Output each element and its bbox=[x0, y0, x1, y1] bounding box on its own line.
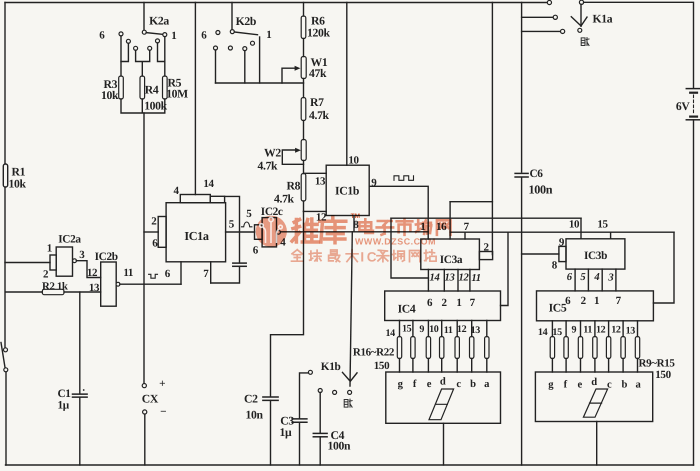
switch K2b contact 4 bbox=[228, 46, 232, 50]
switch K1a contact on rail end bbox=[547, 0, 551, 4]
resistor R4 bbox=[140, 76, 145, 99]
svg-text:12: 12 bbox=[87, 267, 98, 279]
gate IC2b body bbox=[101, 262, 117, 306]
svg-text:100n: 100n bbox=[328, 439, 351, 452]
wire IC3a pin 16 drop bbox=[449, 202, 451, 239]
svg-text:6: 6 bbox=[201, 30, 207, 42]
wire W2 wiper shorted to bottom terminal bbox=[282, 150, 303, 164]
svg-text:d: d bbox=[440, 377, 446, 388]
svg-text:4: 4 bbox=[593, 272, 599, 283]
capacitor C2 bbox=[263, 396, 278, 398]
gate IC2c left pin stub (pins 5,6) bbox=[255, 225, 263, 240]
IC5 output pin wires to R9-R15 bbox=[552, 321, 637, 337]
gate IC2c inversion bubble output bbox=[277, 230, 281, 234]
switch K2b contact 2 bbox=[251, 41, 255, 45]
svg-text:CX: CX bbox=[142, 393, 159, 406]
battery negative long plate bbox=[686, 119, 700, 121]
wire K2a contact 5 down bbox=[121, 43, 128, 61]
svg-text:f: f bbox=[564, 379, 568, 390]
op-amp IC1b body bbox=[326, 165, 369, 215]
svg-text:14: 14 bbox=[538, 327, 548, 338]
svg-text:5: 5 bbox=[229, 218, 235, 230]
IC4 output pin wires to R16-R22 bbox=[400, 321, 487, 337]
resistor R1 (inline on left rail) bbox=[3, 164, 7, 187]
seven-segment display DS1 body bbox=[386, 372, 501, 423]
resistor R8 bbox=[301, 174, 306, 202]
svg-text:6: 6 bbox=[427, 297, 433, 309]
wire IC1a pin 14 loop over to timing capacitor bbox=[225, 196, 240, 263]
display bus left leg down to IC3a pin 14 wire bbox=[391, 218, 428, 278]
op-amp IC1a body bbox=[166, 203, 226, 262]
svg-text:IC1a: IC1a bbox=[184, 229, 209, 243]
digit 8 figure of DS1 bbox=[429, 389, 454, 420]
wire W1 bottom to R7 (node with range bus) bbox=[303, 79, 305, 98]
capacitor C1 wire tap from R2 net bbox=[79, 292, 81, 394]
svg-text:4.7k: 4.7k bbox=[309, 109, 330, 122]
svg-text:4.7k: 4.7k bbox=[258, 159, 279, 172]
watermark slogan line (fake glyphs) bbox=[292, 249, 437, 264]
IC1a top pin stub (pin 4) bbox=[180, 195, 210, 203]
svg-text:11: 11 bbox=[471, 273, 480, 284]
svg-text:2: 2 bbox=[442, 297, 448, 309]
switch K2b pole contact bbox=[230, 30, 234, 34]
wire W2 bottom to R8 top, tap to IC1b pin 13 bbox=[303, 161, 305, 174]
arrowhead of W1 wiper bbox=[295, 66, 301, 71]
svg-text:12: 12 bbox=[596, 325, 606, 336]
switch K2b wiper to position 1 bbox=[234, 32, 257, 35]
svg-text:7: 7 bbox=[203, 268, 209, 280]
svg-text:IC2b: IC2b bbox=[95, 251, 118, 263]
wire K1b contact 1 to C3 bbox=[300, 373, 309, 419]
IC3b pin 10 drop bbox=[580, 218, 582, 239]
wire K2a contact 2 merge to R5 leg bbox=[158, 43, 165, 62]
svg-text:K2a: K2a bbox=[149, 14, 169, 27]
switch K2a contact 3 bbox=[148, 46, 152, 50]
wire IC2b pin 11 output to IC1a bottom pin 6 bbox=[120, 283, 181, 285]
svg-text:1: 1 bbox=[266, 29, 272, 41]
svg-text:IC2a: IC2a bbox=[58, 234, 81, 246]
svg-text:K2b: K2b bbox=[236, 15, 257, 28]
svg-text:6: 6 bbox=[99, 29, 105, 41]
capacitor (timing, unlabeled) bbox=[233, 262, 246, 264]
wire K2a contact 1 down to R5 bbox=[164, 37, 166, 76]
wire IC1b pin 13 bbox=[304, 172, 327, 174]
wire R8 net down to C2 bbox=[271, 211, 304, 396]
svg-text:3: 3 bbox=[79, 249, 85, 261]
svg-text:5: 5 bbox=[246, 208, 252, 220]
wire C4 to bottom rail bbox=[319, 437, 321, 465]
IC1a pin 7 stub bbox=[210, 262, 212, 283]
square wave symbol on clock wire bbox=[394, 176, 414, 181]
svg-text:b: b bbox=[470, 379, 476, 390]
svg-text:a: a bbox=[636, 379, 642, 390]
wire K2a contacts 4+3 merge to R4 bbox=[136, 50, 150, 76]
svg-text:g: g bbox=[398, 379, 404, 390]
wire K2a contact 6 down to R3 bbox=[120, 36, 122, 76]
battery 6V positive long plate bbox=[686, 88, 700, 90]
watermark overlay bbox=[256, 213, 451, 264]
svg-text:b: b bbox=[622, 379, 628, 390]
switch K2b contact 3 bbox=[243, 47, 247, 51]
wire strobe bus right end down to IC5 right side bbox=[653, 232, 674, 303]
resistor R5 bbox=[163, 76, 168, 99]
svg-text:W2: W2 bbox=[264, 146, 281, 159]
battery short plate upper bbox=[690, 92, 697, 94]
K1a contact wires from C6 column bbox=[522, 17, 561, 31]
svg-text:6: 6 bbox=[567, 272, 573, 283]
seven-segment display DS2 body bbox=[535, 372, 652, 422]
svg-text:15: 15 bbox=[597, 219, 608, 231]
switch K1b contact 3 bbox=[333, 390, 337, 394]
switch K2a pole wire from top rail bbox=[143, 3, 145, 31]
battery short plate lower bbox=[690, 115, 697, 117]
svg-text:150: 150 bbox=[655, 369, 671, 381]
resistor R7 bbox=[301, 98, 306, 121]
switch K2a contact 6 bbox=[119, 32, 123, 36]
svg-text:f: f bbox=[413, 379, 417, 390]
border frame left rail bbox=[4, 3, 6, 348]
driver IC4 body bbox=[385, 291, 501, 321]
wire R2 net from left rail bbox=[6, 291, 42, 293]
svg-text:2: 2 bbox=[484, 241, 490, 253]
svg-text:e: e bbox=[577, 379, 582, 390]
svg-text:13: 13 bbox=[315, 175, 326, 187]
switch K1b off-position contact bbox=[348, 390, 352, 394]
svg-text:TM: TM bbox=[351, 213, 360, 220]
svg-text:6: 6 bbox=[565, 295, 571, 307]
capacitor C1 polarity dot bbox=[83, 389, 85, 391]
arrowhead of W2 wiper bbox=[295, 148, 301, 153]
IC3a pin 2 stub box bbox=[479, 252, 492, 260]
svg-text:IC3a: IC3a bbox=[440, 254, 463, 266]
wire strobe bus tap down to IC4 right side bbox=[501, 232, 509, 305]
switch K1b contact 1 bbox=[308, 370, 312, 374]
switch K1a contact 3 bbox=[561, 29, 565, 33]
wire C6 bottom down to bottom rail (taps IC3b pins 9/8) bbox=[521, 177, 523, 465]
IC3b left pin stub (pins 9,8) bbox=[559, 246, 566, 261]
svg-text:4.7k: 4.7k bbox=[274, 193, 295, 206]
svg-text:6: 6 bbox=[253, 244, 259, 256]
svg-text:13: 13 bbox=[471, 325, 481, 336]
svg-text:1: 1 bbox=[171, 30, 177, 42]
switch K2b contact 5 bbox=[214, 46, 218, 50]
node CX plus terminal bbox=[142, 384, 146, 388]
wire C2 to bottom rail bbox=[270, 401, 272, 465]
svg-text:7: 7 bbox=[470, 297, 476, 309]
switch K2a contact 5 bbox=[126, 39, 130, 43]
svg-text:1: 1 bbox=[47, 243, 53, 255]
switch K2a contact 2 bbox=[156, 39, 160, 43]
svg-text:1: 1 bbox=[456, 297, 462, 309]
svg-text:IC3b: IC3b bbox=[584, 250, 607, 262]
watermark logo inner traces bbox=[260, 217, 283, 243]
svg-text:14: 14 bbox=[385, 328, 395, 339]
resistor R6 bbox=[301, 16, 306, 39]
battery negative lead / right rail to bottom bbox=[693, 120, 695, 465]
svg-text:11: 11 bbox=[583, 325, 592, 336]
switch K2a pole contact bbox=[142, 30, 146, 34]
IC3a pin 7 drop from strobe bus bbox=[464, 232, 466, 239]
svg-text:1μ: 1μ bbox=[280, 426, 292, 439]
power switch on left rail, blade bbox=[1, 343, 5, 368]
svg-text:13: 13 bbox=[445, 273, 456, 284]
power switch on left rail, upper contact bbox=[4, 348, 8, 352]
wire R8 bottom down with tap to IC1b pin 12 bbox=[303, 201, 305, 211]
wire R7 to W2 bbox=[303, 121, 305, 140]
gate IC2b inversion bubble output bbox=[116, 282, 120, 286]
wire IC1a pins 4/14 from top rail bbox=[194, 3, 196, 195]
svg-text:R16~R22: R16~R22 bbox=[353, 346, 395, 358]
wire left rail lower segment bbox=[5, 372, 7, 465]
top rail right section from K1a pole bbox=[584, 2, 694, 88]
svg-text:IC1b: IC1b bbox=[335, 185, 360, 198]
svg-text:6: 6 bbox=[152, 238, 158, 250]
switch K2a contact 4 bbox=[134, 46, 138, 50]
svg-text:C2: C2 bbox=[244, 393, 258, 406]
capacitor C4 bbox=[313, 432, 327, 434]
label duan (off) of K1a bbox=[581, 38, 589, 46]
counter IC3a body bbox=[421, 239, 480, 270]
svg-text:12: 12 bbox=[611, 325, 621, 336]
capacitor C3 bbox=[292, 418, 307, 420]
wire IC1b pin 10 from top rail bbox=[346, 3, 348, 166]
battery dashed middle (cells omitted) bbox=[693, 95, 695, 114]
wire timing-node column down to CX+ terminal bbox=[143, 113, 145, 383]
svg-text:K1a: K1a bbox=[593, 12, 613, 25]
svg-text:IC4: IC4 bbox=[398, 303, 416, 316]
svg-text:14: 14 bbox=[203, 178, 214, 190]
svg-text:c: c bbox=[456, 379, 461, 390]
svg-text:47k: 47k bbox=[309, 67, 327, 80]
wire timing capacitor to IC1a pin 7 bbox=[211, 267, 240, 284]
IC3a output pins 14/13/12/11 to IC4 bbox=[428, 270, 470, 292]
wire DS2 common to bottom rail bbox=[596, 422, 598, 466]
svg-text:100n: 100n bbox=[529, 183, 553, 197]
svg-text:10: 10 bbox=[569, 218, 580, 230]
switch K1a contact 2 bbox=[553, 15, 557, 19]
switch K1a off-position contact bbox=[578, 28, 582, 32]
svg-text:I: I bbox=[360, 249, 364, 264]
watermark logo circle bbox=[256, 216, 287, 247]
svg-text:6V: 6V bbox=[676, 100, 690, 113]
op-amp gate IC2a input stub (pins 1,2) bbox=[50, 255, 56, 270]
wire latch line from top rail down (to IC3a pins 16/2) bbox=[491, 3, 493, 255]
label duan (off) of K1b bbox=[344, 399, 352, 407]
resistor network R9~R15 bbox=[550, 337, 554, 359]
wire IC2c pin 4 output bus to clock column (gating bus) bbox=[280, 231, 428, 233]
wire IC1b pin 12 bbox=[304, 210, 327, 212]
wire CX minus to bottom rail bbox=[144, 414, 146, 465]
svg-text:+: + bbox=[159, 378, 165, 390]
wire K2b contact 1 down to range bus bbox=[259, 37, 261, 83]
wire latch branch to IC3a pin 16 bbox=[450, 201, 492, 203]
wire K1b contact 2 to C4 bbox=[319, 393, 321, 434]
wire IC2a output to IC2b pin 12 bbox=[76, 261, 100, 278]
switch K1a wiper arrow bbox=[571, 17, 587, 26]
switch K2a contact 1 bbox=[163, 33, 167, 37]
svg-text:K1b: K1b bbox=[321, 361, 341, 373]
wire C6 column from top rail bbox=[521, 3, 523, 173]
digit 8 figure of DS2 bbox=[583, 389, 607, 417]
svg-text:R9~R15: R9~R15 bbox=[638, 358, 675, 370]
switch K2b contact 6 bbox=[216, 31, 220, 35]
svg-text:14: 14 bbox=[430, 273, 440, 284]
node CX minus terminal bbox=[143, 410, 147, 414]
svg-text:5: 5 bbox=[580, 272, 586, 283]
svg-text:2: 2 bbox=[151, 215, 157, 227]
svg-text:10M: 10M bbox=[166, 88, 188, 101]
svg-text:9: 9 bbox=[559, 236, 565, 248]
potentiometer W2 bbox=[301, 140, 306, 161]
wire W1 wiper to range bus bbox=[282, 68, 296, 83]
svg-text:12: 12 bbox=[457, 324, 467, 335]
power switch on left rail, lower contact bbox=[4, 368, 8, 372]
svg-text:C: C bbox=[367, 249, 377, 264]
wire K2b contact 3 down to range bus bbox=[244, 51, 246, 83]
svg-text:g: g bbox=[548, 379, 554, 390]
switch K2b pole wire from top rail bbox=[231, 3, 233, 30]
strobe bus (IC3a pin7 / IC4 / IC3b pin15 / IC5) bbox=[450, 231, 674, 233]
wire C3 to bottom rail bbox=[299, 423, 301, 466]
IC3b pin 15 drop from strobe bus bbox=[610, 232, 612, 239]
svg-text:150: 150 bbox=[374, 360, 390, 372]
driver IC5 body bbox=[537, 291, 654, 321]
svg-text:120k: 120k bbox=[307, 27, 330, 40]
svg-text:11: 11 bbox=[123, 267, 133, 279]
switch K1a pole wire down bbox=[580, 4, 582, 26]
switch K1b pole wiper arrow bbox=[343, 372, 358, 381]
negative pulse symbol on IC2b output wire bbox=[149, 274, 158, 278]
gate IC2a body bbox=[56, 247, 72, 276]
wire R6 to W1 bbox=[303, 39, 305, 57]
svg-text:1: 1 bbox=[594, 295, 600, 307]
wire DS1 common to bottom rail bbox=[443, 423, 445, 465]
switch K1a pole contact bbox=[579, 0, 583, 4]
wire C1 to bottom rail bbox=[79, 397, 81, 465]
svg-text:7: 7 bbox=[464, 221, 470, 233]
svg-text:3: 3 bbox=[607, 273, 614, 284]
gate IC2c body bbox=[262, 218, 276, 247]
wire IC2a input from left rail bbox=[5, 262, 50, 264]
IC3b output pins 6/5/4/3 to IC5 bbox=[575, 269, 616, 291]
potentiometer W1 bbox=[301, 57, 306, 79]
wire timing node to IC1a pins 2/6 bbox=[144, 231, 158, 233]
svg-text:9: 9 bbox=[371, 177, 377, 189]
IC1a top pin stub (pin 14) bbox=[210, 196, 224, 202]
svg-text:IC5: IC5 bbox=[549, 302, 567, 315]
switch K2a wiper to position 1 bbox=[146, 33, 163, 35]
svg-text:13: 13 bbox=[626, 326, 636, 337]
svg-text:e: e bbox=[427, 379, 432, 390]
svg-text:R4: R4 bbox=[145, 83, 159, 96]
svg-text:WWW.DZSC.COM: WWW.DZSC.COM bbox=[355, 237, 436, 247]
svg-text:10k: 10k bbox=[9, 178, 27, 191]
pulse symbol on pin 5 wire bbox=[242, 222, 252, 227]
svg-text:2: 2 bbox=[581, 295, 587, 307]
svg-text:a: a bbox=[484, 379, 490, 390]
svg-text:C6: C6 bbox=[530, 168, 544, 180]
bottom rail (ground return) bbox=[6, 464, 694, 466]
svg-text:10: 10 bbox=[429, 324, 439, 335]
svg-text:10: 10 bbox=[348, 155, 359, 167]
wires R9-R15 to display DS2 bbox=[552, 359, 637, 373]
svg-text:8: 8 bbox=[552, 260, 558, 272]
capacitor C6 bbox=[515, 172, 528, 174]
svg-text:10n: 10n bbox=[246, 408, 264, 421]
wire K2b contact 5 down to range bus bbox=[215, 50, 217, 83]
IC1a pin 6 bottom stub bbox=[180, 262, 182, 284]
wire IC1a pin 5 output bbox=[226, 231, 255, 233]
svg-text:12: 12 bbox=[459, 273, 470, 284]
watermark big title (fake glyphs) bbox=[292, 213, 451, 243]
switch K1b contact 2 bbox=[318, 389, 322, 393]
resistor R3 bbox=[119, 76, 124, 99]
svg-text:6: 6 bbox=[165, 268, 171, 280]
wire K2b range bus to W1 bottom node bbox=[216, 82, 304, 84]
border frame top rail (V+ rail, left section up to K1a contact) bbox=[5, 2, 547, 4]
wire IC3b pins 9/8 to C6 column bbox=[522, 253, 559, 255]
display bus from pin14 node to IC3b pin 10 bbox=[391, 217, 581, 219]
wires R16-R22 to display DS1 bbox=[400, 359, 487, 373]
counter IC3b body bbox=[566, 239, 625, 269]
svg-text:1μ: 1μ bbox=[58, 399, 70, 411]
wire R6 top to top rail bbox=[303, 3, 305, 17]
resistor R2 (horizontal) bbox=[42, 289, 64, 294]
resistor network R16~R22 bbox=[397, 337, 401, 359]
wire K1b pole from gating bus bbox=[350, 232, 352, 386]
wire R3/R4/R5 bottoms merged bbox=[121, 99, 165, 113]
svg-text:R2 1k: R2 1k bbox=[42, 281, 68, 293]
wire IC1b pin 9 output to IC3a clock bbox=[369, 186, 428, 239]
svg-text:9: 9 bbox=[419, 324, 424, 335]
wire R2 to IC2b pin 13 (node with C1 tap) bbox=[64, 291, 101, 293]
svg-text:2: 2 bbox=[43, 268, 49, 280]
svg-text:4: 4 bbox=[174, 185, 180, 197]
svg-text:9: 9 bbox=[571, 325, 576, 336]
svg-text:−: − bbox=[160, 406, 166, 418]
gate IC2a inversion bubble output bbox=[73, 259, 77, 263]
svg-text:R8: R8 bbox=[287, 180, 301, 193]
svg-text:R7: R7 bbox=[310, 96, 324, 109]
IC1b pin 8 stub to gating bus bbox=[353, 216, 355, 232]
svg-text:11: 11 bbox=[444, 325, 453, 336]
svg-text:10k: 10k bbox=[101, 89, 119, 102]
IC1a left pin stub (pins 2,6) bbox=[158, 217, 166, 248]
svg-text:d: d bbox=[591, 377, 597, 388]
svg-text:15: 15 bbox=[402, 324, 412, 335]
svg-text:7: 7 bbox=[616, 295, 622, 307]
capacitor C1 (electrolytic) bbox=[73, 393, 88, 395]
